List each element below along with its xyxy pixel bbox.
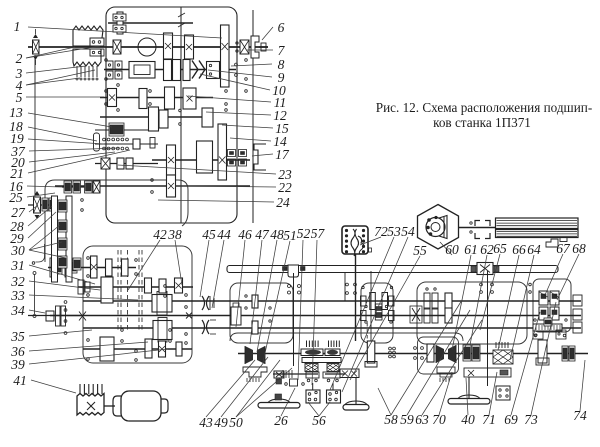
svg-text:68: 68 [572, 241, 586, 256]
apron casing [230, 283, 293, 343]
feed gear 3 [122, 259, 129, 276]
under-apron casing [230, 333, 463, 341]
apron gear b [252, 321, 258, 334]
svg-text:22: 22 [278, 180, 292, 195]
tower cluster gear 4 [58, 256, 67, 268]
svg-text:46: 46 [238, 227, 252, 242]
svg-text:1: 1 [14, 19, 21, 34]
lead shaft B [83, 327, 581, 329]
bracket on shaft I left [113, 12, 126, 34]
motor right cap [161, 399, 168, 413]
shaft fittings [470, 221, 490, 239]
bed rail X slider [471, 263, 499, 275]
tailstock base plate [533, 319, 567, 337]
svg-text:17: 17 [275, 147, 290, 162]
apron box 2 [327, 390, 341, 403]
tower cluster gear 3 [58, 238, 67, 250]
detent end block [133, 138, 155, 150]
caption line 1 [376, 100, 592, 115]
cardan coupling caps [361, 296, 395, 321]
worm base plate 2 [323, 372, 340, 378]
motor brush comb [80, 384, 102, 394]
clutch dots right [414, 347, 424, 360]
bearing shaft I right [240, 40, 249, 54]
left bearing 34 [46, 306, 66, 326]
svg-text:26: 26 [274, 413, 288, 428]
svg-text:55: 55 [413, 243, 427, 258]
worm screw comb 1 [307, 341, 319, 348]
svg-text:39: 39 [10, 357, 25, 372]
svg-text:44: 44 [217, 227, 231, 242]
gear shaft VI a [167, 145, 176, 175]
svg-text:32: 32 [10, 274, 25, 289]
svg-text:48: 48 [270, 227, 284, 242]
shaft IV [100, 116, 213, 118]
feed select shaft [48, 267, 136, 269]
detent shaft [95, 143, 158, 145]
tower tall bearing [34, 191, 41, 219]
feed gear 8 [175, 278, 183, 293]
svg-text:2: 2 [16, 51, 23, 66]
svg-text:31: 31 [10, 258, 25, 273]
tower column a [52, 196, 58, 282]
right lower housing [418, 337, 459, 374]
rack pinion box X [274, 371, 298, 386]
tower dots [81, 199, 84, 212]
left stub shaft [28, 315, 82, 317]
shaft V (selector) [95, 129, 150, 131]
chuck hexagon [418, 205, 459, 250]
svg-text:71: 71 [482, 412, 496, 427]
gear before bevel [427, 344, 434, 362]
dots under bar right [480, 283, 494, 293]
svg-text:34: 34 [10, 303, 25, 318]
gear shaft III d [183, 88, 196, 109]
shaft II [104, 69, 236, 71]
gear pair dark right [463, 345, 480, 361]
svg-text:51: 51 [283, 228, 297, 243]
feed low gear 3 [159, 341, 166, 357]
svg-text:58: 58 [384, 412, 398, 427]
worm wide plate [302, 358, 341, 363]
shaft I [28, 46, 268, 48]
svg-text:62: 62 [480, 242, 494, 257]
svg-text:63: 63 [415, 412, 429, 427]
motor shaft link [104, 405, 115, 407]
bevel gear pair left [245, 346, 265, 364]
svg-text:72: 72 [374, 224, 388, 239]
headstock casing [106, 7, 237, 223]
reverse end piece [78, 280, 90, 294]
tower small gears [42, 198, 55, 211]
svg-text:54: 54 [401, 224, 415, 239]
apron box 1 [306, 390, 320, 403]
apron screw dots [302, 383, 305, 386]
svg-text:53: 53 [387, 224, 401, 239]
gear shaft IV a [149, 107, 169, 131]
clutch ticks [210, 296, 214, 310]
gear mid right [445, 293, 452, 323]
feed gear 9 [153, 318, 172, 343]
lower coil block [73, 49, 101, 66]
svg-text:64: 64 [527, 242, 541, 257]
handwheel left [258, 379, 300, 408]
feed gearbox casing [83, 246, 192, 363]
tower column b [66, 196, 72, 282]
feed shaft dots [87, 257, 188, 362]
shaft VII [55, 185, 250, 187]
svg-text:57: 57 [311, 226, 326, 241]
shaft end cap 1 [573, 295, 582, 306]
sliding block shaft II [129, 62, 155, 79]
svg-text:27: 27 [11, 205, 26, 220]
tower bearing right [93, 181, 100, 193]
cross feed screw box [464, 368, 511, 377]
feed rod [50, 315, 581, 317]
worm screw comb 2 [329, 341, 340, 348]
long vertical x487 [487, 271, 489, 386]
bearing pair mid a [424, 288, 438, 309]
bearing shaft VI right [0, 0, 1, 1]
faceplate bracket 17 [254, 144, 266, 170]
gear shaft III b [139, 89, 147, 109]
end gear pair dark [562, 346, 575, 361]
select shaft left gears [50, 256, 77, 277]
svg-text:40: 40 [461, 412, 475, 427]
bed rail clamp [283, 265, 306, 277]
svg-text:52: 52 [297, 226, 311, 241]
bevel housing [243, 367, 267, 377]
dashed selector lines [118, 250, 142, 332]
vertical shaft x294 [293, 273, 295, 366]
rack segment ticks [283, 370, 292, 378]
selector lever [94, 133, 100, 151]
bearing left end shaft I [33, 29, 40, 65]
gear block shaft I b [185, 35, 194, 59]
jaw clutch shaft II [192, 61, 205, 79]
svg-text:25: 25 [9, 190, 23, 205]
feed nut X box [340, 369, 359, 378]
lower coil terminal plate [90, 49, 104, 56]
right box with dots [496, 386, 510, 400]
worm stack right [493, 342, 513, 364]
tailstock gear row 1 [539, 291, 559, 305]
angle bracket small [546, 239, 558, 247]
gear shaft II c [183, 60, 190, 81]
left frame vertical [34, 55, 36, 196]
tower gear b [85, 181, 93, 193]
worm plate 1 [301, 349, 323, 356]
end cylinder [536, 340, 549, 365]
svg-text:69: 69 [504, 412, 518, 427]
tailstock bar dots [529, 283, 532, 293]
svg-text:43: 43 [199, 415, 213, 430]
svg-text:67: 67 [556, 241, 571, 256]
tailstock gear row 2 [539, 307, 559, 320]
clutch mid [410, 306, 422, 323]
handwheel mid [343, 377, 369, 410]
svg-text:24: 24 [276, 195, 290, 210]
lead shaft A [83, 300, 581, 302]
casing bore circle [138, 38, 156, 56]
svg-text:66: 66 [512, 242, 526, 257]
left gear-tower casing [45, 180, 188, 262]
headstock wall line [252, 10, 254, 223]
apron gear a [252, 295, 258, 308]
worm spring 2 [327, 364, 339, 372]
detent circles [103, 138, 129, 150]
tailstock casing [533, 279, 571, 332]
worm vertical shaft [355, 254, 357, 341]
headstock shaft dots [105, 59, 248, 126]
svg-text:13: 13 [9, 105, 23, 120]
vertical stub x345 [344, 272, 346, 301]
svg-text:5: 5 [16, 90, 23, 105]
svg-text:45: 45 [202, 227, 216, 242]
svg-text:59: 59 [400, 412, 414, 427]
motor body [121, 391, 161, 421]
shaft I end stub [259, 43, 268, 51]
reverse shaft [78, 286, 193, 288]
svg-text:38: 38 [167, 227, 182, 242]
bearing X mark [79, 312, 86, 321]
top small fittings [533, 330, 566, 339]
feed gear 5 [145, 278, 152, 293]
feed gear 1 [91, 256, 98, 278]
gear shaft VII dots [151, 179, 154, 194]
tailstock gear small [544, 318, 552, 326]
feed gear 7 [159, 279, 166, 293]
svg-text:56: 56 [312, 413, 326, 428]
bed rail [227, 266, 558, 273]
shaft end cap 3 [573, 322, 582, 333]
casing wall dots [236, 42, 238, 52]
worm base plate 1 [306, 372, 319, 378]
shaft 0 (top stub) [108, 22, 193, 24]
spindle bearing pair 17 [228, 150, 247, 167]
cardan coupling dots [362, 286, 393, 323]
svg-text:60: 60 [445, 242, 459, 257]
leadscrew hatched block [496, 218, 579, 242]
gear block shaft I a [164, 33, 173, 59]
bearing shaft I inner [113, 40, 121, 54]
gear shaft III c [165, 87, 175, 109]
svg-text:49: 49 [214, 415, 228, 430]
tower upper shaft [62, 186, 100, 188]
gear shaft IV b [202, 108, 213, 127]
coupling dots left [288, 285, 301, 295]
tower side shaft [28, 204, 62, 206]
coil terminal plate [90, 38, 104, 46]
wide gear shaft II [207, 62, 220, 79]
gear block shaft VI [197, 141, 213, 173]
apron cylinder [231, 303, 241, 325]
bearing dots shaft II [235, 63, 238, 76]
brush comb [76, 66, 98, 80]
link cylinder [365, 341, 377, 367]
svg-text:74: 74 [573, 408, 587, 423]
svg-text:ков станка 1П371: ков станка 1П371 [433, 115, 531, 130]
gear shaft III a [108, 89, 117, 107]
feed low gear 4 [176, 342, 182, 356]
shaft end cap 2 [573, 309, 582, 320]
motor coil block [73, 26, 103, 46]
right bracket 6 [251, 36, 259, 58]
worm spring 1 [305, 364, 318, 372]
svg-text:35: 35 [10, 329, 25, 344]
clutch jaw y304 [202, 296, 209, 310]
apron dots [245, 295, 271, 322]
worm base dots [307, 379, 338, 382]
motor left bell [113, 396, 121, 416]
feed gear 2 [106, 259, 113, 276]
tower cluster gear 2 [58, 220, 67, 232]
hex shaft [458, 227, 496, 229]
svg-text:47: 47 [255, 227, 270, 242]
bead dots shaft [389, 347, 396, 358]
shaft III [100, 97, 213, 99]
bevel base right [437, 367, 455, 382]
feed low gear 2 [145, 339, 152, 358]
feed gear 6 [152, 292, 172, 316]
clutch jaw y327 [202, 320, 216, 334]
bevel pair right [436, 345, 456, 363]
idler circles [64, 301, 67, 335]
worm plate 1b [325, 349, 340, 356]
coupling dots y301 [346, 283, 357, 294]
vertical shaft x371 [370, 271, 372, 341]
svg-text:65: 65 [493, 241, 507, 256]
svg-text:30: 30 [10, 243, 25, 258]
svg-text:61: 61 [464, 242, 478, 257]
dotted plate 72 [342, 226, 372, 256]
shaft VI [152, 159, 250, 161]
motor stator block [77, 394, 104, 416]
cardan coupling cylinders [370, 293, 388, 310]
svg-text:33: 33 [10, 288, 25, 303]
feed lower shaft [83, 348, 192, 350]
tall gear lower [218, 124, 227, 180]
svg-text:70: 70 [432, 412, 446, 427]
ratchet gear dark [109, 123, 124, 136]
tall gear upper [221, 25, 230, 87]
gear shaft VII a [167, 175, 176, 197]
svg-text:6: 6 [278, 20, 285, 35]
feed low big gear [100, 337, 114, 361]
tower hook curve [36, 244, 45, 262]
left sub shaft [95, 163, 158, 165]
bevel hatch [247, 378, 259, 382]
svg-text:42: 42 [153, 227, 167, 242]
cross-slide casing [417, 282, 527, 344]
bearing pair mid b [424, 308, 438, 323]
svg-text:41: 41 [13, 373, 27, 388]
tower gear pair a [64, 181, 81, 193]
clamp X mark [186, 313, 192, 319]
cardan coupling centre [375, 304, 382, 320]
apron lower shaft [238, 353, 588, 355]
dot gears shaft II left [106, 61, 122, 79]
tower lower gear [73, 258, 81, 270]
worm stem 1 [312, 383, 314, 390]
caption line 2 [433, 115, 531, 130]
coupling casing [361, 283, 393, 343]
headstock inner wall [178, 7, 185, 223]
worm stem 2 [332, 383, 334, 390]
cross slide foot [448, 377, 490, 404]
feed big gear [101, 277, 113, 303]
left sub bearing [101, 158, 133, 169]
gear pair shaft II [164, 60, 181, 81]
tower cluster gear 1 [58, 200, 67, 212]
svg-text:Рис. 12. Схема расположения по: Рис. 12. Схема расположения подшип- [376, 100, 592, 115]
rack bar [273, 373, 345, 375]
svg-text:73: 73 [524, 412, 538, 427]
svg-text:50: 50 [229, 415, 243, 430]
dashed link stub [366, 323, 368, 340]
lollipop column [32, 262, 36, 318]
